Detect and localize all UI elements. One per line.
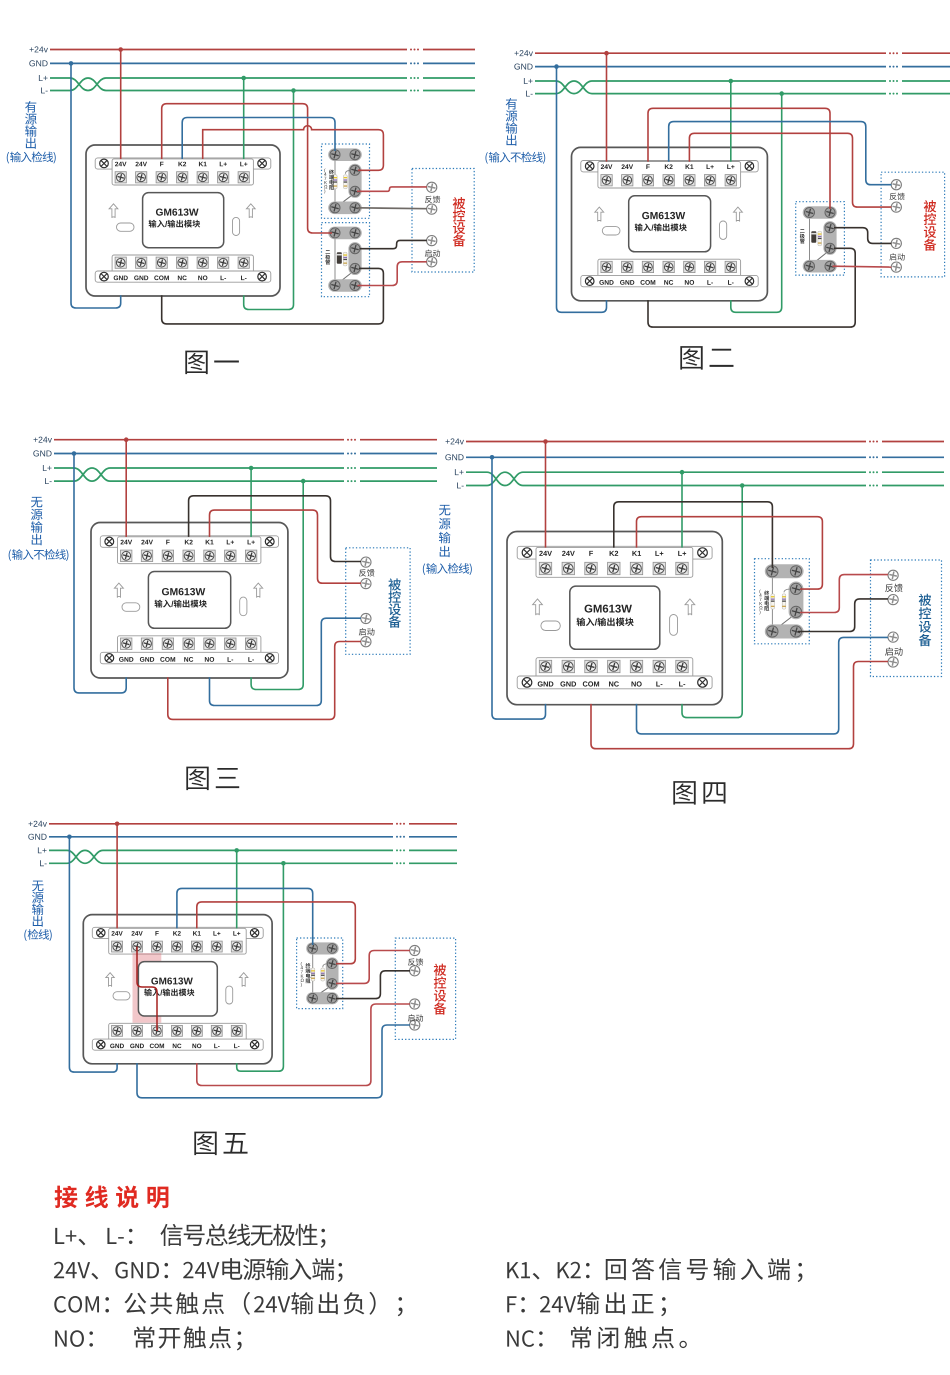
bus continuation dots +24v [347,439,356,441]
terminal pill top [328,148,362,161]
jumper pad right [720,221,727,239]
screw 反馈 terminal b [427,204,437,214]
screw 反馈 terminal a [891,180,901,190]
corner screw top-right [698,548,708,558]
wire L+ to top L+#7 (green) [681,472,683,547]
terminal labels GND GND COM NC NO L- L- [538,681,554,686]
terminal labels 24V 24V F K2 K1 L+ L+ [121,540,133,545]
label GM613W [642,212,685,219]
wire K1 to resistor block vpill (red) [197,902,355,964]
resistor R2 (4.7K) [784,589,792,593]
label 输入/输出模块 [144,989,160,997]
label （检线） (图五) [24,929,26,941]
wire GND#2 to 启动 b (blue) [137,1025,410,1098]
label 反馈 [408,958,423,965]
bus label GND [29,60,47,66]
wire K2 to resistor block (blue) [177,888,313,945]
resistor R1 (4.7K) [311,968,315,981]
bus continuation dots L+ [869,471,878,473]
bus line +24v [54,439,344,441]
bus continuation dots +24v [396,823,405,825]
label GM613W [156,208,199,215]
terminal labels 24V 24V F K2 K1 L+ L+ [601,164,613,169]
orientation arrow left [114,583,123,598]
screw 启动 terminal a [361,613,371,623]
module GM613W U3 (图三) outline [91,523,288,679]
resistor R2 (4.7K) [323,964,328,968]
terminal pill bottom [328,202,362,215]
junction +24v drop (图五) [115,822,120,827]
bus continuation dots L+ [396,849,405,851]
screw 启动 terminal a [888,632,898,642]
label 启动 [408,1014,423,1021]
label 无源输出 (图三) [31,497,43,545]
corner screw bottom-right [258,272,267,281]
legend line 24V GND [54,1262,90,1278]
terminal strip top [581,161,758,172]
screw 启动 terminal a [410,999,420,1009]
center label plate [143,193,224,248]
terminal pill bottom [306,992,339,1004]
wire F to diode block top-right (red) [648,108,830,209]
wire TB2 to 启动 b (red) [358,262,427,286]
bus label +24v [446,438,464,444]
terminal pill bottom [765,624,804,638]
legend line NC [507,1330,534,1347]
wire K2 to 反馈 a (blue) [669,122,892,185]
terminal screws top row [121,550,132,561]
label 输入/输出模块 [635,223,651,231]
wire K1 to 反馈 b (red) [210,510,362,583]
bus line +24v [49,823,393,825]
bus continuation dots GND [410,62,419,64]
junction +24v drop (图三) [124,437,129,442]
legend line F [507,1296,516,1312]
label （输入检线） (图一) [7,152,9,164]
junction GND drop (图三) [72,451,77,456]
TB1 终端电阻 dashed enclosure [322,144,370,218]
wire +24v to 24V#1 (red) [606,53,608,161]
label 有源输出 (图一) [25,101,37,149]
label 反馈 [425,196,440,203]
wire +24v to 24V#1 (red) [125,440,127,537]
bus label GND [445,454,463,460]
label 终端电阻 (4.7KΩ) [301,962,302,966]
label 终端电阻 (4.7KΩ) [324,168,325,172]
junction GND drop (图五) [67,835,72,840]
jumper pad left [117,223,135,231]
corner screw top-right [745,162,754,171]
block screws [308,944,318,954]
corner screw bottom-right [698,678,708,688]
bus label L+ [38,847,47,853]
label 输入/输出模块 [155,600,171,608]
label 反馈 [890,193,905,200]
wire L+ to top L+#7 (green) [243,78,245,159]
wire L- to bottom L-#7 (green) [237,863,284,1071]
bus line L- [466,472,866,485]
label （输入检线） (图四) [423,563,425,575]
bus label GND [514,63,532,69]
module GM613W U4 (图四) outline [507,532,722,705]
junction L+ drop (图二) [729,79,734,84]
corner screw top-left [585,162,594,171]
label （输入不检线） (图三) [9,549,11,561]
terminal pill top [306,942,339,954]
corner screw bottom-left [522,678,532,688]
bus line +24v [50,49,407,51]
bus continuation dots L+ [347,467,356,469]
orientation arrow left [109,204,118,218]
screw 启动 terminal b [410,1020,420,1030]
bus label GND [28,834,46,840]
terminal labels GND GND COM NC NO L- L- [599,280,613,285]
wire +24v to 24V#1 (red) [116,824,118,929]
module GM613W U5 (图五) outline [83,915,272,1064]
bus label L- [41,87,48,93]
label 被控设备 (vertical) [924,200,937,251]
legend title 接线说明 [55,1186,169,1209]
bus line L- [54,468,344,481]
terminal pill vertical [789,582,804,620]
corner screw bottom-left [585,277,594,286]
bus line L+ [49,850,393,863]
terminal labels GND GND COM NC NO L- L- [119,657,133,662]
block screws [767,566,778,577]
center label plate [138,962,217,1016]
bus label +24v [34,437,52,443]
junction L+ drop (图一) [241,76,246,81]
bus continuation dots GND [347,453,356,455]
center label plate [629,196,711,252]
bus continuation dots GND [889,66,898,68]
terminal strip bottom [598,259,741,286]
screw 启动 terminal b [427,257,437,267]
label 启动 [889,253,904,260]
terminal strip bottom [109,1023,247,1049]
corner screw bottom-right [250,1040,258,1048]
bus continuation dots L+ [889,80,898,82]
bus label GND [33,450,51,456]
jumper pad right [240,597,247,616]
wire +24v to 24V#1 (red) [120,50,122,160]
junction L- drop (图四) [740,483,745,488]
terminal screws top row [112,941,123,952]
bus line L- [49,850,393,863]
label 无源输出 (图五) [32,881,44,927]
bus label L- [40,860,47,866]
terminal labels 24V 24V F K2 K1 L+ L+ [112,931,123,935]
legend line COM [54,1296,99,1313]
terminal pill vertical [348,242,361,275]
bus label L- [526,91,533,97]
wire COM to 启动 b (red) [591,662,888,749]
corner screw top-left [522,548,532,558]
wire TB4 to 反馈 b (black) [798,599,888,632]
terminal pill bottom [328,279,362,292]
label 无源输出 (图四) [439,505,451,557]
screw 反馈 terminal b [888,595,898,605]
screw 反馈 terminal b [361,579,371,589]
block screws [805,208,815,218]
wire TB1 to 反馈 b (gray) [358,207,427,210]
wire L+ to top L+#7 (green) [250,468,252,537]
terminal strip bottom [536,658,693,688]
wire K2 to 反馈 a (black) [189,496,361,562]
terminal labels 24V 24V F K2 K1 L+ L+ [115,162,126,167]
screw 启动 terminal a [891,238,901,248]
orientation arrow right [685,599,695,615]
bus continuation dots GND [869,456,878,458]
label 被控设备 (vertical) [453,197,466,246]
bus continuation dots +24v [869,441,878,443]
orientation arrow right [734,207,743,221]
bus continuation dots L- [889,93,898,95]
corner screw bottom-right [265,654,274,663]
bus label L- [457,482,464,488]
center label plate [148,572,230,629]
bus line L+ [50,78,407,91]
bus label L+ [455,469,464,475]
screw 反馈 terminal b [891,202,901,212]
caption 图五 [194,1132,247,1156]
orientation arrow left [595,207,604,221]
label 被控设备 (vertical) [434,964,447,1015]
D5 被控设备 dashed box [395,938,455,1039]
screw 启动 terminal a [427,236,437,246]
junction L- drop (图二) [779,91,784,96]
terminal pill top [803,206,837,219]
orientation arrow right [239,973,248,987]
jumper pad right [233,217,240,235]
terminal screws top row [539,562,551,574]
TB2 二极管 dashed enclosure [322,223,370,297]
label 终端电阻 (4.7KΩ) [759,589,760,593]
junction L- drop (图五) [281,861,286,866]
label 被控设备 (vertical) [919,594,932,646]
screw 启动 terminal b [891,262,901,272]
bus line GND [50,62,407,64]
junction L+ drop (图五) [234,848,239,853]
screw 反馈 terminal a [427,182,437,192]
terminal labels 24V 24V F K2 K1 L+ L+ [539,551,552,556]
wire TB3 to 启动 b (red) [833,265,892,268]
bus continuation dots +24v [889,52,898,54]
label GM613W [162,588,205,595]
wire L- to bottom L-#7 (green) [682,486,742,718]
D2 被控设备 dashed box [881,172,945,277]
label 输入/输出模块 [149,220,165,228]
label 反馈 [885,584,903,592]
caption 图四 [673,781,725,805]
terminal screws bottom row [115,257,126,268]
TB5 终端电阻 dashed enclosure [297,938,343,1009]
junction +24v drop (图二) [604,51,609,56]
bus line L+ [535,81,886,94]
resistor R1 (4.7K) [334,175,338,189]
terminal strip top [92,927,263,938]
D4 被控设备 dashed box [871,560,942,677]
wire K2 to resistor block (black) [614,502,773,568]
terminal pill bottom [803,260,837,273]
bus line L+ [54,468,344,481]
corner screw top-right [265,537,274,546]
wire TB3 to 启动 a (black) [834,228,891,244]
internal wire 24V#2 to COM (red, 图五) [137,947,157,1031]
module GM613W U2 (图二) outline [572,147,768,300]
screw 反馈 terminal b [410,966,420,976]
bus label L+ [43,465,52,471]
wire GND to bottom GND#1 (blue) [492,457,546,719]
screw 启动 terminal b [888,657,898,667]
screw 反馈 terminal a [361,557,371,567]
terminal labels GND GND COM NC NO L- L- [110,1044,124,1049]
caption 图二 [680,346,733,370]
bus line +24v [466,441,866,443]
wire TB5 to 反馈 b (black) [336,971,410,999]
terminal pill vertical [348,164,361,198]
jumper pad left [113,992,130,1000]
wire L- to bottom L-#7 (green) [244,91,294,310]
label （输入不检线） (图二) [485,152,487,164]
terminal strip bottom [118,636,261,663]
terminal screws bottom row [539,660,551,672]
block screws [330,150,340,160]
D3 被控设备 dashed box [346,548,410,655]
wire TB2 to 启动 a (black) [360,240,427,248]
label 反馈 [359,569,375,577]
bus line GND [466,456,866,458]
junction L+ drop (图三) [249,466,254,471]
junction GND drop (图二) [554,64,559,69]
wire L- to bottom L-#7 (green) [731,94,782,313]
bus line L- [535,81,886,94]
label 启动 [885,647,903,655]
label 二极管 [800,229,805,243]
bus continuation dots L- [869,485,878,487]
jumper pad left [602,227,620,235]
bus label +24v [29,821,47,827]
bus continuation dots L- [347,480,356,482]
terminal labels GND GND COM NC NO L- L- [114,275,128,280]
wire +24v to 24V#1 (red) [545,442,547,548]
internal link wires [809,213,811,267]
wire TB5 to 反馈 a (red) [336,951,410,984]
diode D1 [337,252,342,264]
label 启动 [359,628,375,636]
terminal screws top row [601,175,612,186]
bus label +24v [515,50,533,56]
label 启动 [425,249,440,256]
resistor R1 (4.7K) [771,594,775,609]
wire COM to diode block vpill (black) [648,248,855,327]
module GM613W U1 (图一) outline [86,145,280,296]
label GM613W [585,605,632,613]
terminal screws bottom row [112,1025,123,1036]
legend line K1 K2 [507,1262,530,1278]
caption 图三 [186,767,239,791]
bus label L+ [524,78,533,84]
orientation arrow left [106,973,115,987]
bus line GND [49,836,393,838]
junction +24v drop (图四) [543,439,548,444]
terminal pill vertical [326,957,339,989]
corner screw top-left [100,159,109,168]
wire GND to bottom GND#1 (blue) [74,454,126,693]
wire GND to bottom GND#1 (blue) [71,63,121,308]
corner screw bottom-left [97,1040,105,1048]
label 有源输出 (图二) [506,98,518,146]
center label plate [570,586,660,649]
bus continuation dots +24v [410,49,419,51]
terminal strip top [100,536,278,548]
junction L+ drop (图四) [680,470,685,475]
jumper pad right [670,615,678,636]
wire L+ to top L+#7 (green) [730,81,732,162]
corner screw top-left [105,537,114,546]
terminal strip bottom [112,255,253,281]
wire GND to bottom GND#1 (blue) [69,837,117,1072]
screw 反馈 terminal a [410,945,420,955]
internal link wires [334,155,336,208]
internal link wires [312,948,314,998]
terminal screws bottom row [601,261,612,272]
bus line L- [50,78,407,91]
corner screw bottom-left [105,654,114,663]
diode D1 [811,231,816,243]
corner screw bottom-right [745,277,754,286]
corner screw top-right [258,159,267,168]
junction L- drop (图一) [291,88,296,93]
corner screw bottom-left [100,272,109,281]
terminal pill vertical [823,221,836,255]
wire K1 to resistor block vpill (red, bumps over F wire) [203,126,384,171]
bus line L+ [466,472,866,485]
wire TB1 to 反馈 a (red) [357,187,427,191]
label GM613W [151,977,193,984]
jumper pad left [122,603,140,612]
junction L- drop (图三) [301,479,306,484]
terminal screws bottom row [121,638,132,649]
orientation arrow left [533,599,543,615]
wire L+ to top L+#7 (green) [236,850,238,928]
wire F to diode block (red) [162,104,332,233]
junction +24v drop (图一) [118,47,123,52]
junction GND drop (图四) [490,455,495,460]
wire NO to 启动 a (red) [197,1004,410,1086]
internal link wires [334,233,336,286]
TB4 终端电阻 dashed enclosure [755,559,810,644]
wire GND to bottom GND#1 (blue) [557,67,607,313]
wire NO to 启动 a (blue) [637,637,889,734]
corner screw top-left [97,929,105,937]
bus label L+ [39,75,48,81]
bus label L- [45,478,52,484]
terminal strip top [517,546,712,559]
TB3 二极管 dashed enclosure [796,202,845,275]
terminal pill top [328,227,362,240]
caption 图一 [185,351,239,375]
label 二极管 [325,250,330,264]
bus line GND [54,453,344,455]
bus continuation dots GND [396,836,405,838]
bus continuation dots L+ [410,77,419,79]
screw 反馈 terminal a [888,570,898,580]
wire NO to 启动 a (blue) [210,618,362,705]
label 被控设备 (vertical) [388,578,401,627]
block screws [330,228,340,238]
bus continuation dots L- [410,90,419,92]
